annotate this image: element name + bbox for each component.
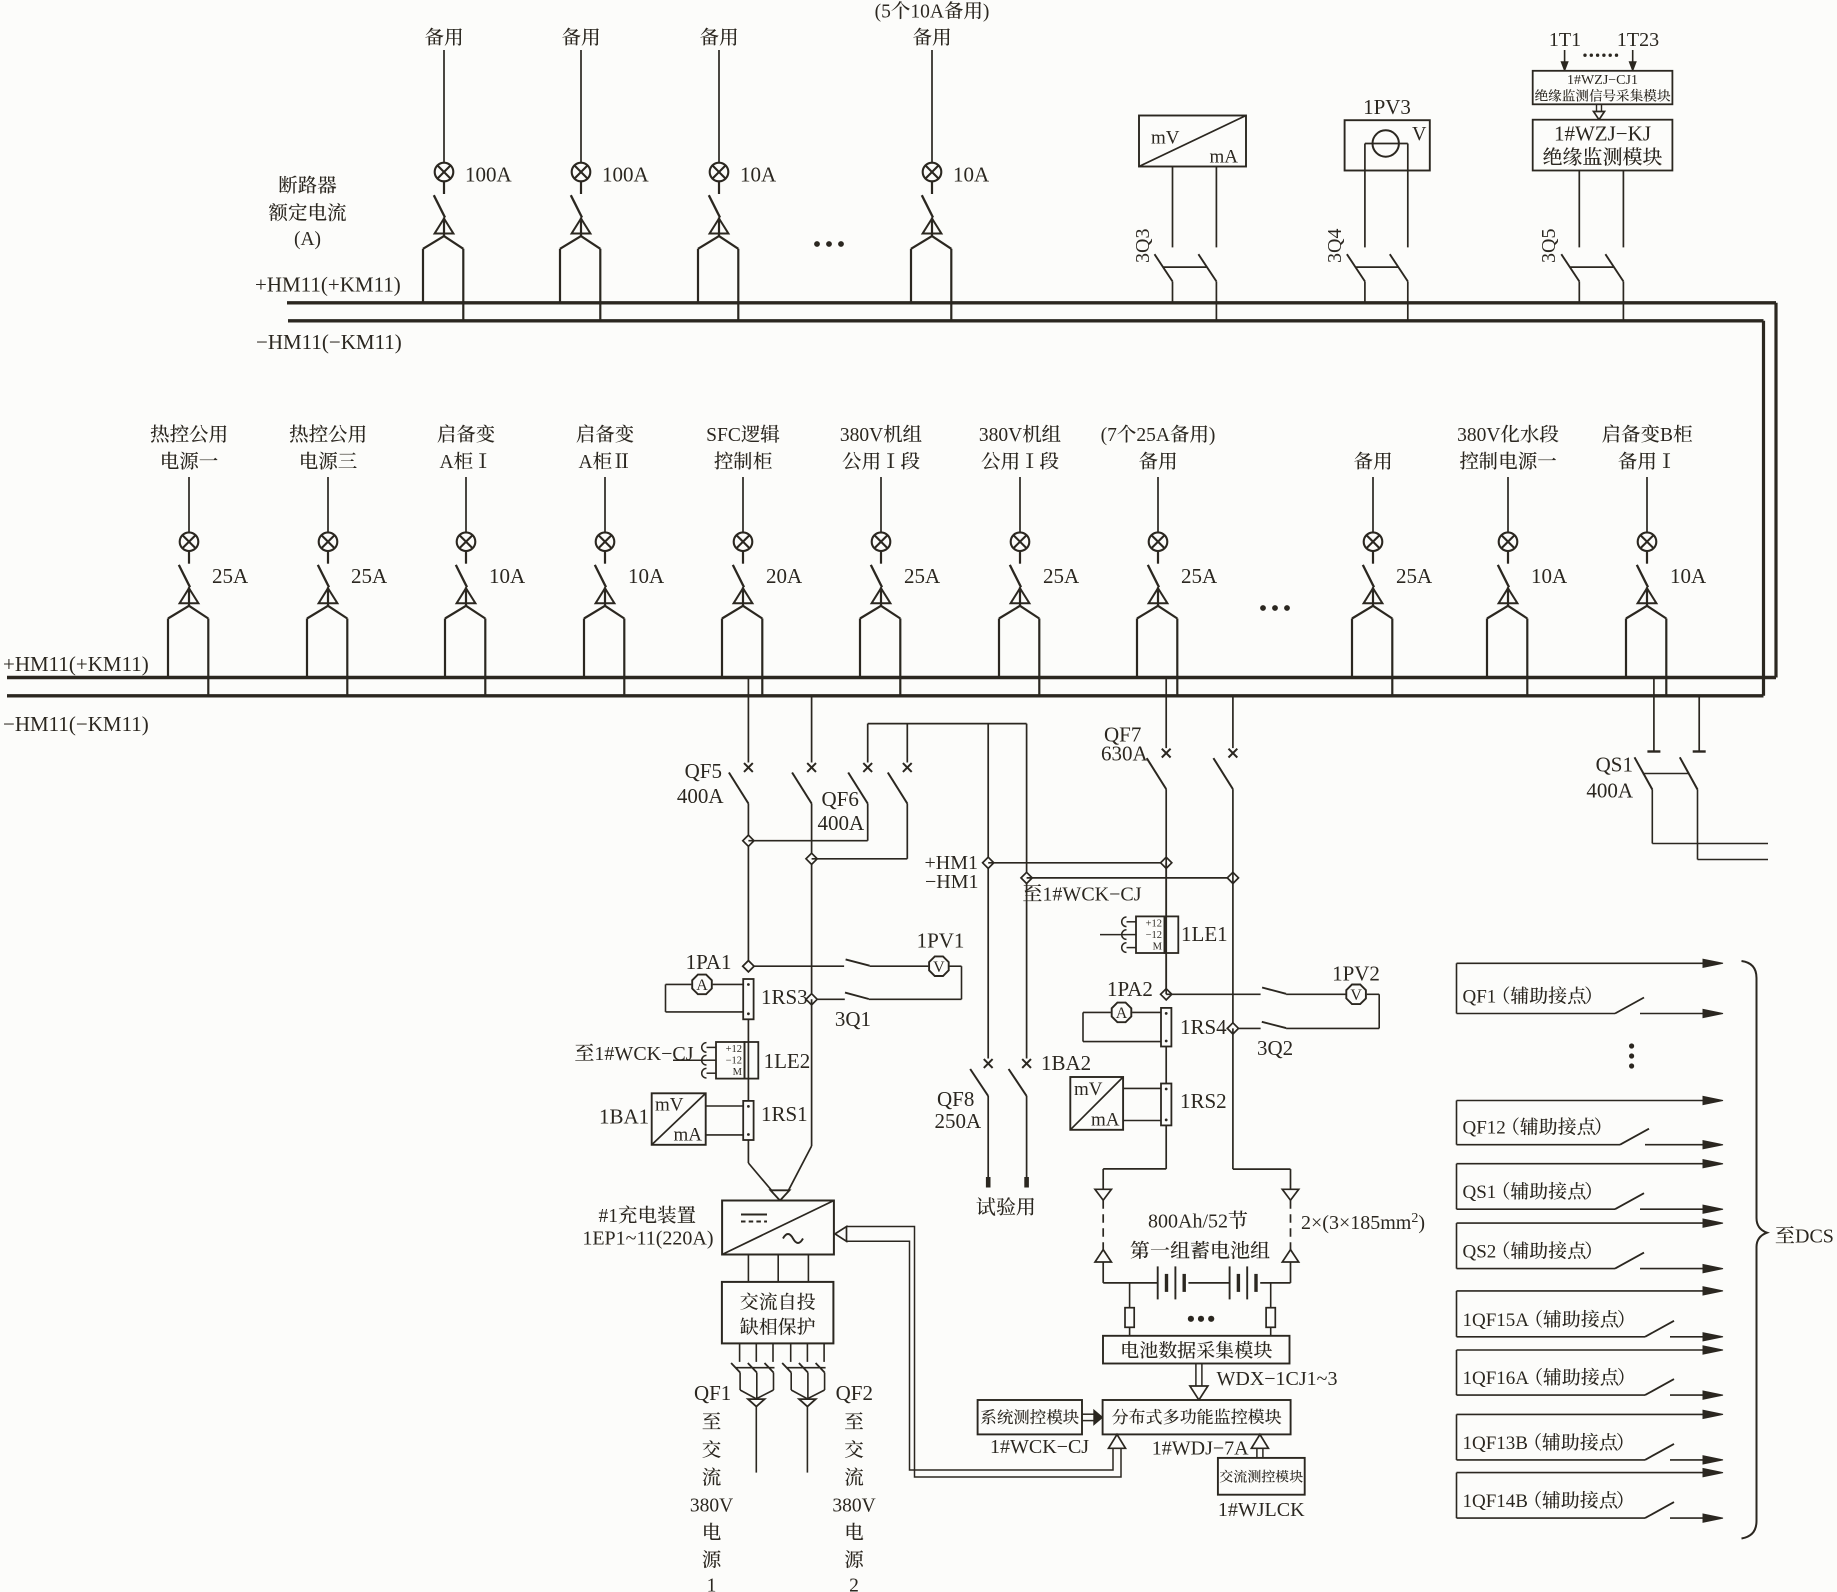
svg-text:250A: 250A [935,1109,983,1133]
svg-text:3Q4: 3Q4 [1324,229,1346,263]
svg-text:绝缘监测信号采集模块: 绝缘监测信号采集模块 [1535,89,1671,104]
svg-text:1PA1: 1PA1 [686,950,732,974]
svg-text:流: 流 [702,1467,722,1489]
svg-text:25A: 25A [1181,564,1218,588]
svg-text:1#WZJ−CJ1: 1#WZJ−CJ1 [1567,73,1638,88]
svg-text:至1#WCK−CJ: 至1#WCK−CJ [1022,884,1141,906]
svg-text:额定电流: 额定电流 [268,203,347,225]
svg-text:+12: +12 [1146,918,1162,929]
svg-text:1PV1: 1PV1 [917,929,965,953]
svg-text:QF2: QF2 [836,1381,873,1405]
svg-text:V: V [933,959,945,976]
svg-text:A柜Ⅱ: A柜Ⅱ [578,451,631,473]
svg-text:1#WJLCK: 1#WJLCK [1218,1499,1305,1521]
svg-text:备用: 备用 [912,27,951,49]
svg-text:400A: 400A [677,784,725,808]
svg-text:V: V [1350,987,1362,1004]
svg-text:备用: 备用 [561,27,600,49]
svg-text:100A: 100A [602,163,650,187]
svg-text:源: 源 [844,1550,864,1572]
svg-text:1QF16A（辅助接点）: 1QF16A（辅助接点） [1463,1367,1637,1389]
svg-text:A: A [696,977,708,994]
svg-text:1QF15A（辅助接点）: 1QF15A（辅助接点） [1463,1309,1637,1331]
svg-text:热控公用: 热控公用 [150,424,228,446]
svg-text:公用Ⅰ段: 公用Ⅰ段 [842,451,920,473]
svg-text:1T1: 1T1 [1549,29,1581,51]
svg-text:1RS1: 1RS1 [761,1102,808,1126]
svg-text:100A: 100A [465,163,513,187]
svg-text:1T23: 1T23 [1617,29,1659,51]
svg-text:10A: 10A [489,564,526,588]
svg-text:+HM11(+KM11): +HM11(+KM11) [3,652,149,676]
svg-text:mA: mA [1091,1110,1120,1131]
svg-text:热控公用: 热控公用 [289,424,367,446]
svg-text:1: 1 [707,1576,717,1592]
svg-text:(5个10A备用): (5个10A备用) [875,1,990,23]
svg-text:25A: 25A [212,564,249,588]
svg-text:第一组蓄电池组: 第一组蓄电池组 [1130,1240,1271,1263]
svg-text:1QF13B（辅助接点）: 1QF13B（辅助接点） [1463,1432,1636,1454]
svg-text:−12: −12 [1146,930,1162,941]
svg-text:缺相保护: 缺相保护 [740,1317,816,1339]
svg-text:380V: 380V [832,1496,875,1517]
svg-text:SFC逻辑: SFC逻辑 [706,424,780,446]
svg-text:1EP1~11(220A): 1EP1~11(220A) [582,1228,713,1250]
svg-text:380V机组: 380V机组 [840,424,923,446]
svg-text:+HM11(+KM11): +HM11(+KM11) [255,273,401,297]
svg-text:控制柜: 控制柜 [714,451,773,473]
svg-text:1RS4: 1RS4 [1180,1015,1227,1039]
svg-text:1PV2: 1PV2 [1332,962,1380,986]
svg-text:1RS3: 1RS3 [761,985,808,1009]
svg-text:电池数据采集模块: 电池数据采集模块 [1120,1340,1272,1362]
svg-text:QF1（辅助接点）: QF1（辅助接点） [1463,986,1604,1008]
svg-text:mA: mA [674,1125,703,1146]
svg-text:3Q2: 3Q2 [1257,1036,1293,1060]
svg-text:10A: 10A [1531,564,1568,588]
svg-text:M: M [1153,942,1163,953]
svg-text:400A: 400A [818,811,866,835]
svg-text:至1#WCK−CJ: 至1#WCK−CJ [574,1043,693,1065]
svg-text:1LE1: 1LE1 [1181,922,1228,946]
svg-text:交: 交 [844,1440,864,1462]
svg-text:−HM11(−KM11): −HM11(−KM11) [256,330,402,354]
svg-text:1PV3: 1PV3 [1363,95,1411,119]
svg-text:mV: mV [1151,128,1180,149]
svg-text:V: V [1412,123,1427,145]
svg-text:1#WDJ−7A: 1#WDJ−7A [1152,1438,1249,1460]
svg-text:25A: 25A [904,564,941,588]
svg-text:400A: 400A [1586,779,1634,803]
svg-text:800Ah/52节: 800Ah/52节 [1148,1211,1248,1233]
svg-text:源: 源 [702,1550,722,1572]
svg-text:QF12（辅助接点）: QF12（辅助接点） [1463,1117,1613,1139]
svg-text:25A: 25A [1043,564,1080,588]
svg-text:A柜Ⅰ: A柜Ⅰ [439,451,492,473]
svg-text:QS1（辅助接点）: QS1（辅助接点） [1463,1181,1604,1203]
svg-text:3Q3: 3Q3 [1132,229,1154,263]
svg-text:20A: 20A [766,564,803,588]
svg-text:断路器: 断路器 [278,175,337,197]
svg-text:2×(3×185mm2): 2×(3×185mm2) [1301,1211,1425,1234]
svg-text:启备变: 启备变 [576,424,635,446]
svg-text:#1充电装置: #1充电装置 [598,1205,696,1227]
svg-text:10A: 10A [740,163,777,187]
svg-text:A: A [1116,1005,1128,1022]
svg-text:系统测控模块: 系统测控模块 [980,1408,1080,1427]
svg-text:电源三: 电源三 [299,451,358,473]
svg-text:QS1: QS1 [1596,753,1633,777]
svg-text:1PA2: 1PA2 [1107,977,1153,1001]
svg-text:QF8: QF8 [937,1087,974,1111]
svg-text:−HM11(−KM11): −HM11(−KM11) [3,712,149,736]
svg-text:公用Ⅰ段: 公用Ⅰ段 [981,451,1059,473]
svg-text:1LE2: 1LE2 [764,1049,811,1073]
svg-text:1BA1: 1BA1 [599,1105,649,1129]
svg-text:交流测控模块: 交流测控模块 [1219,1469,1303,1486]
svg-text:备用: 备用 [1353,451,1392,473]
svg-text:2: 2 [849,1576,859,1592]
svg-text:1QF14B（辅助接点）: 1QF14B（辅助接点） [1463,1490,1636,1512]
svg-text:至: 至 [844,1412,864,1434]
svg-text:10A: 10A [1670,564,1707,588]
svg-text:380V: 380V [690,1496,733,1517]
svg-text:10A: 10A [628,564,665,588]
svg-text:−HM1: −HM1 [925,871,979,893]
svg-text:流: 流 [844,1467,864,1489]
svg-text:备用Ⅰ: 备用Ⅰ [1618,451,1677,473]
svg-text:至DCS: 至DCS [1775,1226,1834,1248]
svg-text:1#WZJ−KJ: 1#WZJ−KJ [1554,122,1651,146]
svg-text:mV: mV [1074,1079,1103,1100]
svg-text:电: 电 [702,1522,722,1544]
svg-text:启备变B柜: 启备变B柜 [1601,424,1693,446]
svg-text:试验用: 试验用 [976,1197,1036,1219]
svg-text:备用: 备用 [424,27,463,49]
svg-text:25A: 25A [351,564,388,588]
svg-text:mA: mA [1210,147,1239,168]
svg-text:1#WCK−CJ: 1#WCK−CJ [990,1436,1089,1458]
svg-text:380V机组: 380V机组 [979,424,1062,446]
svg-text:交流自投: 交流自投 [740,1292,816,1314]
svg-text:25A: 25A [1396,564,1433,588]
svg-text:分布式多功能监控模块: 分布式多功能监控模块 [1112,1408,1282,1427]
svg-text:(A): (A) [294,229,321,250]
svg-text:QF1: QF1 [694,1381,731,1405]
svg-text:QF5: QF5 [685,759,722,783]
svg-text:mV: mV [655,1095,684,1116]
svg-text:电源一: 电源一 [160,451,219,473]
svg-text:启备变: 启备变 [437,424,496,446]
svg-text:M: M [733,1067,743,1078]
svg-text:至: 至 [702,1412,722,1434]
svg-text:QF6: QF6 [822,787,859,811]
svg-text:630A: 630A [1101,742,1149,766]
svg-text:3Q5: 3Q5 [1538,229,1560,263]
svg-text:380V化水段: 380V化水段 [1457,424,1559,446]
svg-text:+12: +12 [726,1044,742,1055]
svg-text:绝缘监测模块: 绝缘监测模块 [1543,146,1663,169]
svg-text:(7个25A备用): (7个25A备用) [1101,424,1216,446]
svg-text:备用: 备用 [1138,451,1177,473]
svg-text:10A: 10A [953,163,990,187]
svg-text:3Q1: 3Q1 [835,1007,871,1031]
svg-text:WDX−1CJ1~3: WDX−1CJ1~3 [1217,1368,1338,1390]
svg-text:交: 交 [702,1440,722,1462]
svg-text:控制电源一: 控制电源一 [1459,451,1557,473]
svg-text:−12: −12 [726,1056,742,1067]
svg-text:电: 电 [844,1522,864,1544]
svg-text:1RS2: 1RS2 [1180,1089,1227,1113]
svg-text:备用: 备用 [699,27,738,49]
svg-text:QS2（辅助接点）: QS2（辅助接点） [1463,1241,1604,1263]
svg-text:1BA2: 1BA2 [1041,1051,1091,1075]
